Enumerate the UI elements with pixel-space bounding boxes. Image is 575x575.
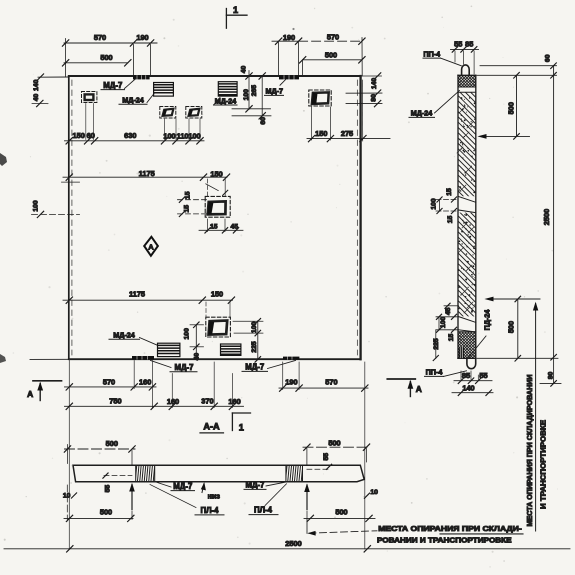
dim 190 top right — [272, 38, 302, 76]
anchor plate top-left — [82, 92, 97, 103]
dim 500 top left — [62, 60, 131, 66]
dim 2500 bottom line — [4, 546, 570, 552]
svg-text:ПП-4: ПП-4 — [423, 49, 440, 58]
label ПЛ-4 right — [249, 484, 287, 515]
svg-text:225: 225 — [251, 341, 258, 353]
leader to note text — [307, 520, 377, 536]
embed МД-24 block bottom-1 — [158, 343, 180, 356]
svg-text:40: 40 — [33, 94, 40, 102]
section notch upper (support wedge) — [458, 196, 476, 212]
svg-text:265: 265 — [251, 85, 258, 97]
dim 55 А-А left — [103, 473, 132, 478]
svg-text:ПЛ-4: ПЛ-4 — [200, 506, 219, 515]
dim 500 А-А bottom-right — [304, 511, 375, 522]
dim 85/55 section bottom — [454, 371, 492, 384]
anchor plate bottom-center — [206, 317, 231, 337]
А-А bar outline — [73, 465, 364, 482]
dim 500 А-А top-left — [64, 445, 135, 465]
extension lines below panel bottom — [69, 360, 365, 550]
svg-text:15: 15 — [446, 188, 453, 196]
dim 1175/150 bottom — [63, 297, 235, 303]
svg-text:80: 80 — [370, 94, 377, 102]
svg-text:500: 500 — [325, 51, 337, 60]
svg-text:А: А — [416, 384, 422, 394]
svg-text:10: 10 — [63, 493, 71, 500]
support arrow left — [129, 483, 135, 510]
svg-text:85: 85 — [465, 40, 473, 49]
svg-text:МД-24: МД-24 — [411, 109, 433, 118]
section bottom lifting loop — [467, 358, 476, 368]
svg-text:100: 100 — [243, 89, 250, 101]
svg-text:100: 100 — [188, 132, 200, 141]
section notch lower (support wedge) — [458, 316, 476, 332]
section 1-1 column outline — [458, 75, 476, 358]
svg-text:И ТРАНСПОРТИРОВКЕ: И ТРАНСПОРТИРОВКЕ — [538, 420, 547, 509]
svg-text:10: 10 — [370, 489, 378, 496]
dim 100/225 chain right of bottom anchor — [233, 319, 263, 363]
svg-text:ПП-4: ПП-4 — [426, 368, 443, 377]
dim 1175/150 middle — [63, 174, 230, 180]
anchor plate top-right — [309, 90, 331, 106]
svg-text:500: 500 — [335, 507, 347, 516]
svg-text:45: 45 — [445, 307, 452, 315]
svg-text:85: 85 — [462, 371, 470, 380]
panel outline — [69, 76, 361, 359]
svg-text:МД-7: МД-7 — [246, 481, 265, 490]
section mark 1 top cutting plane — [226, 9, 247, 29]
svg-text:570: 570 — [327, 33, 339, 42]
dim 100 left rotated — [32, 182, 80, 218]
dim 80 section bottom-right — [540, 358, 561, 386]
section mark 1 bottom — [232, 413, 250, 431]
А-А hatched support strip left — [133, 465, 155, 482]
dim 500 section lower-right — [477, 296, 558, 361]
svg-text:МЕСТА ОПИРАНИЯ ПРИ СКЛАДИ-: МЕСТА ОПИРАНИЯ ПРИ СКЛАДИ- — [378, 524, 522, 533]
dim 500 top right — [299, 38, 365, 77]
panel inner dashed contour right — [356, 80, 358, 355]
anchor extension lines to dim line — [86, 104, 200, 140]
label МД-7 top-left — [101, 79, 136, 90]
section bottom block crosshatch — [452, 308, 482, 390]
label ПЛ-4 left — [150, 485, 224, 515]
svg-text:МД-7: МД-7 — [175, 363, 194, 372]
svg-text:55: 55 — [104, 485, 111, 493]
dim 750/160/370/160 — [65, 403, 244, 409]
panel bottom edge extension left — [30, 358, 69, 360]
label МД-7 А-А right — [244, 482, 286, 489]
leader lines to 140/80 dims — [346, 73, 382, 107]
svg-text:100: 100 — [32, 200, 39, 212]
scan artifact left margin 1 — [0, 153, 7, 166]
dim 500 А-А top-right — [303, 444, 370, 465]
svg-text:150: 150 — [210, 170, 222, 179]
label ПП-4 top — [423, 58, 461, 66]
svg-text:А: А — [27, 389, 33, 399]
svg-text:110: 110 — [177, 132, 189, 141]
svg-text:500: 500 — [506, 321, 515, 333]
dim 265/60 vertical chain — [232, 73, 271, 119]
svg-text:МД-24: МД-24 — [215, 96, 237, 105]
label МД-24 section — [409, 91, 460, 118]
embed МД-24 block top-2 — [218, 82, 237, 96]
label МД-7 А-А left — [156, 482, 195, 491]
svg-text:160: 160 — [167, 397, 179, 406]
svg-text:140: 140 — [462, 383, 474, 392]
svg-text:500: 500 — [328, 438, 340, 447]
support arrow right — [304, 483, 310, 509]
svg-text:60: 60 — [545, 54, 552, 62]
dims 15/100/15 section upper-left — [436, 197, 459, 214]
embed loop МД-7 top-left strip — [133, 75, 150, 79]
svg-text:570: 570 — [94, 33, 106, 42]
svg-text:500: 500 — [100, 53, 112, 62]
svg-text:1175: 1175 — [139, 169, 155, 178]
svg-text:60: 60 — [87, 131, 95, 140]
svg-text:80: 80 — [547, 372, 554, 380]
label МД-24 bottom — [109, 338, 158, 346]
svg-text:160: 160 — [139, 378, 151, 387]
svg-text:150: 150 — [315, 129, 327, 138]
section mark А left — [33, 381, 62, 401]
svg-text:1: 1 — [239, 423, 244, 433]
label МД-7 top-mid — [265, 80, 286, 96]
svg-text:60: 60 — [260, 117, 267, 125]
svg-text:ПД-24: ПД-24 — [482, 310, 491, 331]
dim 150/275 below right anchor — [307, 80, 390, 142]
svg-text:2500: 2500 — [285, 539, 301, 548]
svg-text:ПЛ-4: ПЛ-4 — [254, 506, 273, 515]
scan artifact left margin 2 — [0, 354, 6, 363]
dim 40/100 vertical chain — [232, 71, 271, 113]
svg-text:МД-7: МД-7 — [245, 363, 264, 372]
section concrete hatch upper band — [452, 68, 482, 225]
svg-text:А-А: А-А — [203, 422, 220, 432]
svg-text:750: 750 — [109, 397, 121, 406]
section concrete hatch lower band — [452, 189, 482, 346]
svg-text:190: 190 — [283, 33, 295, 42]
dims 15/15 left of center anchor — [178, 197, 207, 217]
svg-text:А: А — [148, 243, 154, 252]
svg-text:40: 40 — [241, 66, 248, 74]
dim 500 А-А bottom-left — [64, 485, 134, 522]
label ПП-4 bottom — [425, 371, 467, 377]
svg-text:140: 140 — [33, 79, 40, 91]
svg-text:500: 500 — [100, 508, 112, 517]
section bottom plate dark mark — [459, 347, 464, 358]
svg-text:630: 630 — [124, 131, 136, 140]
label МД-24 top-1 — [119, 93, 155, 104]
svg-text:100: 100 — [440, 317, 447, 329]
svg-text:570: 570 — [325, 377, 337, 386]
svg-text:45: 45 — [231, 223, 239, 230]
embed МД-24 block top-1 — [154, 83, 174, 97]
svg-text:2500: 2500 — [542, 209, 551, 225]
label МД-7 bottom-1 — [151, 361, 198, 372]
svg-text:570: 570 — [103, 377, 115, 386]
section МД-24 top block crosshatch — [452, 51, 482, 119]
label низ with arrow — [201, 482, 206, 492]
dim 570 top right — [299, 38, 366, 44]
panel inner dashed contour left — [71, 80, 73, 355]
dim 100/40 chain left of bottom anchor — [190, 322, 204, 359]
svg-text:1175: 1175 — [129, 289, 145, 298]
svg-text:МД-7: МД-7 — [103, 81, 122, 90]
svg-text:15: 15 — [448, 334, 455, 342]
dim 190/570 bottom-right — [279, 385, 368, 391]
svg-text:МД-7: МД-7 — [173, 482, 192, 491]
dim 2500 section right — [551, 66, 557, 360]
svg-text:225: 225 — [433, 338, 440, 350]
dim 140 section bottom — [452, 390, 493, 396]
svg-text:100: 100 — [183, 328, 190, 340]
section top lifting loop — [462, 65, 470, 75]
svg-text:40: 40 — [194, 353, 201, 361]
svg-text:55: 55 — [323, 453, 330, 461]
svg-text:МД-24: МД-24 — [122, 96, 144, 105]
svg-text:160: 160 — [228, 397, 240, 406]
embed loop МД-7 bottom-right strip — [283, 357, 299, 360]
dim 190 top left — [134, 40, 158, 76]
svg-text:370: 370 — [201, 397, 213, 406]
svg-text:140: 140 — [371, 78, 378, 90]
section mark А right — [387, 379, 415, 397]
dim 55/85 section top — [451, 47, 479, 74]
embed loop МД-7 top-right strip — [279, 75, 299, 79]
dim chain 150-60-630-100-110-100 — [65, 138, 205, 144]
leader diagonal to center anchor — [206, 184, 219, 191]
svg-text:55: 55 — [479, 371, 487, 380]
dim 570 top left — [62, 39, 136, 78]
svg-text:275: 275 — [341, 129, 353, 138]
anchor plate top-mid-1 — [160, 107, 176, 119]
svg-text:150: 150 — [211, 290, 223, 299]
А-А hatched support strip right — [283, 465, 303, 482]
dims 45/100/15/225 section lower-left — [433, 303, 458, 360]
dim 55 А-А right — [307, 464, 332, 469]
svg-text:500: 500 — [506, 102, 515, 114]
dim 570/160 bottom-left — [65, 384, 157, 390]
svg-text:МД-24: МД-24 — [113, 331, 135, 340]
svg-text:55: 55 — [454, 40, 462, 49]
svg-text:190: 190 — [285, 377, 297, 386]
panel top edge extension left — [37, 74, 69, 80]
anchor plate top-mid-2 — [186, 107, 202, 119]
svg-text:МД-7: МД-7 — [266, 86, 284, 95]
svg-text:15: 15 — [210, 223, 218, 230]
svg-text:15: 15 — [183, 205, 190, 213]
svg-text:1: 1 — [233, 5, 238, 15]
dim 500 section upper-right — [477, 73, 529, 140]
svg-text:190: 190 — [136, 33, 148, 42]
embed loop МД-7 bottom-left strip — [132, 356, 154, 359]
vertical note underline / arrow to support — [533, 302, 538, 531]
dim 60 top-right — [477, 63, 557, 78]
embed МД-24 block bottom-2 — [221, 344, 241, 355]
svg-text:150: 150 — [73, 131, 85, 140]
dims 15/45 below center anchor — [199, 219, 243, 233]
svg-text:МЕСТА ОПИРАНИЯ ПРИ СКЛАДИРОВАН: МЕСТА ОПИРАНИЯ ПРИ СКЛАДИРОВАНИИ — [525, 375, 534, 527]
svg-text:низ: низ — [208, 491, 221, 500]
svg-text:100: 100 — [430, 198, 437, 210]
svg-text:РОВАНИИ И ТРАНСПОРТИРОВКЕ: РОВАНИИ И ТРАНСПОРТИРОВКЕ — [377, 536, 512, 545]
scan artifact top dot — [292, 28, 294, 30]
label МД-24 top-2 — [214, 98, 238, 106]
anchor plate center — [205, 196, 230, 217]
svg-text:100: 100 — [163, 132, 175, 141]
svg-text:500: 500 — [106, 439, 118, 448]
svg-text:100: 100 — [251, 322, 258, 334]
diamond mounting marker А — [144, 237, 158, 256]
label МД-7 bottom-2 — [242, 360, 296, 371]
